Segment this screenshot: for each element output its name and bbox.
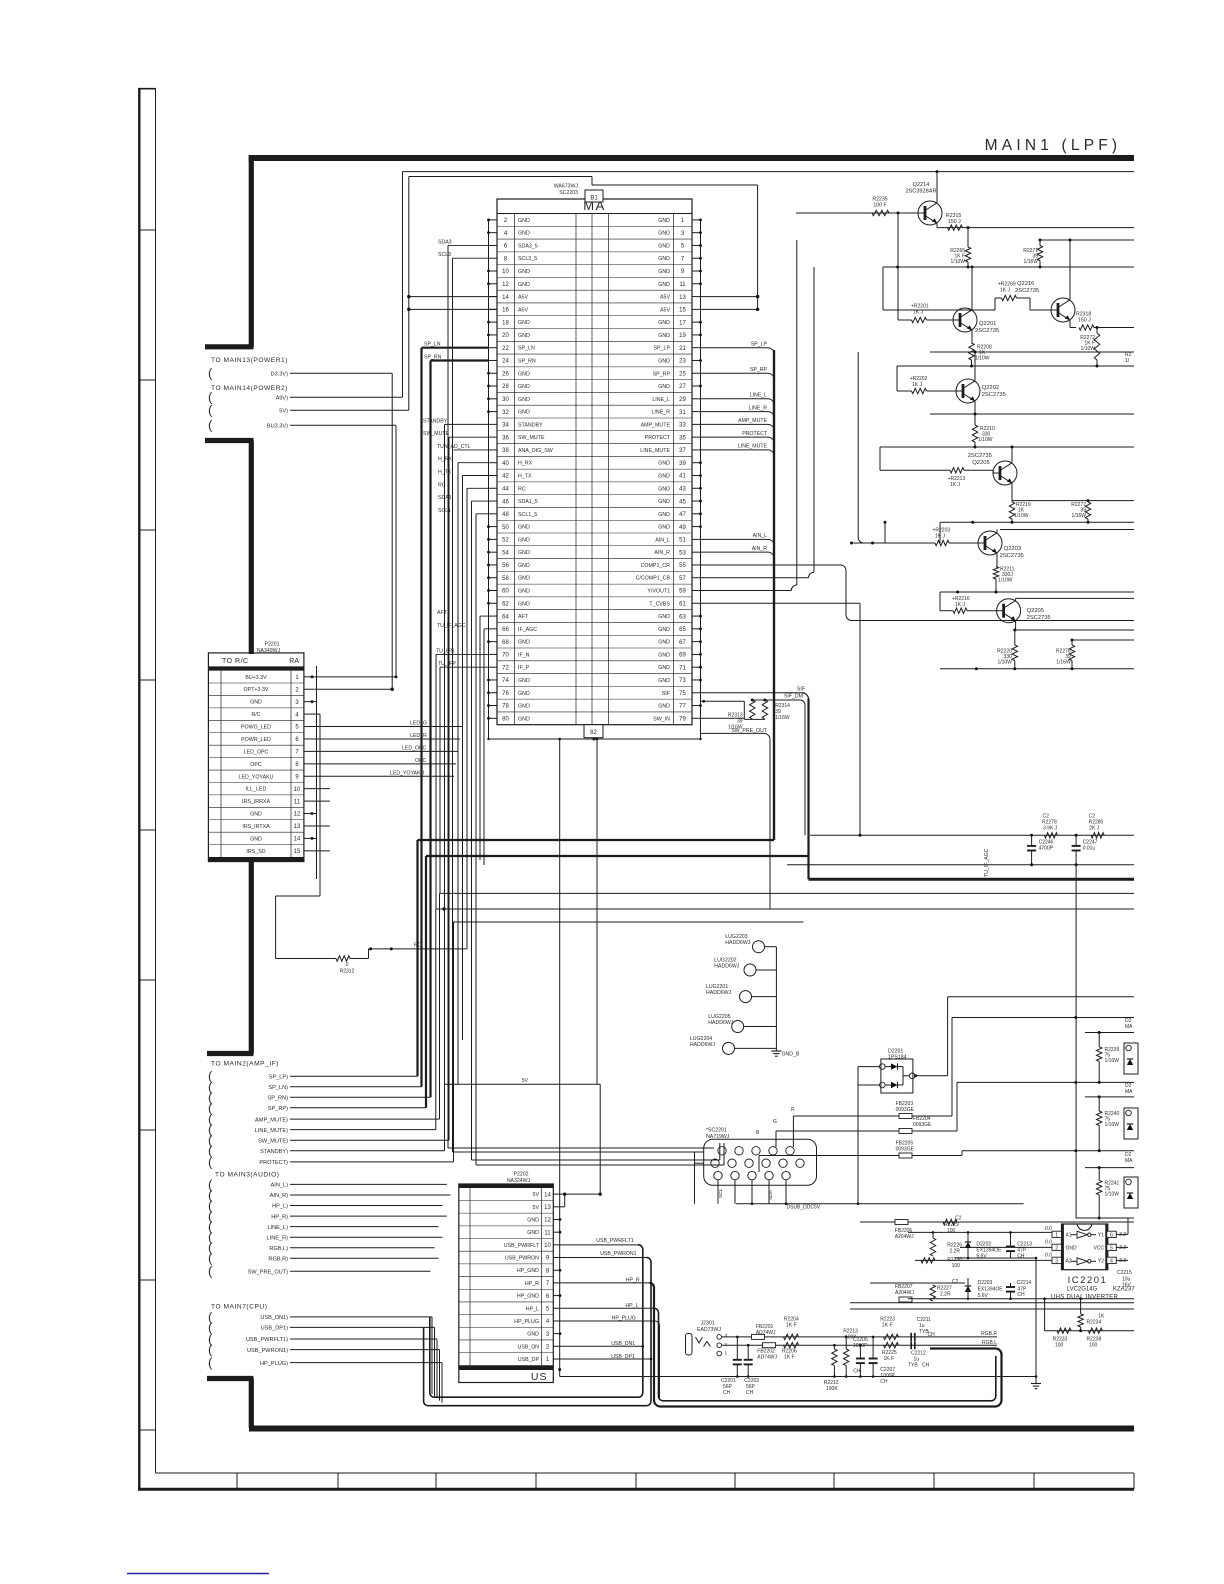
svg-text:LED_R: LED_R [410,733,427,739]
svg-text:AIN_R: AIN_R [752,546,768,552]
svg-text:IRS_IRTXA: IRS_IRTXA [242,824,270,830]
svg-text:UHS DUAL INVERTER: UHS DUAL INVERTER [1051,1294,1118,1300]
svg-text:IRS_SD: IRS_SD [246,849,265,855]
svg-text:GND: GND [518,333,530,339]
svg-text:A204WJ: A204WJ [895,1290,914,1296]
svg-text:1/10W: 1/10W [997,660,1012,666]
svg-text:LINE_R: LINE_R [749,405,767,411]
svg-text:GND: GND [518,269,530,275]
svg-text:TO MAIN13(POWER1): TO MAIN13(POWER1) [211,357,288,364]
svg-text:70: 70 [502,653,509,659]
svg-text:79: 79 [679,717,686,723]
svg-text:A2: A2 [1066,1259,1072,1265]
svg-text:GND: GND [658,269,670,275]
svg-text:69: 69 [679,653,686,659]
svg-text:5.6V: 5.6V [976,1254,987,1260]
svg-text:GND: GND [658,256,670,262]
svg-text:3: 3 [1055,1259,1058,1265]
svg-text:CH: CH [922,1363,930,1369]
svg-text:80: 80 [502,717,509,723]
svg-text:US: US [531,1371,548,1383]
svg-text:16V: 16V [1122,1283,1132,1289]
svg-text:2.2R: 2.2R [949,1249,960,1255]
svg-text:PROTECT: PROTECT [742,431,768,437]
svg-text:12: 12 [544,1218,551,1224]
svg-text:1K J: 1K J [1000,288,1011,294]
svg-text:USB_PWRFLT1: USB_PWRFLT1 [596,1238,633,1244]
svg-text:USB_DN1): USB_DN1) [260,1315,288,1321]
svg-text:IF_N: IF_N [518,652,530,658]
svg-text:24: 24 [502,359,509,365]
svg-text:1/: 1/ [1125,358,1130,364]
svg-text:A5V: A5V [660,307,670,313]
svg-text:SW_MUTE: SW_MUTE [423,431,449,437]
svg-text:1K F: 1K F [784,1355,795,1361]
svg-text:(: ( [208,1355,213,1370]
svg-text:SP_LN: SP_LN [424,342,441,348]
svg-text:SW_MUTE): SW_MUTE) [258,1138,288,1144]
svg-text:RC: RC [518,486,526,492]
svg-text:GND: GND [518,691,530,697]
svg-text:100 F: 100 F [873,203,886,209]
svg-text:100: 100 [1089,1343,1098,1349]
svg-text:C2: C2 [955,1216,962,1222]
svg-text:C2215: C2215 [1117,1270,1132,1276]
svg-text:A5V: A5V [518,295,528,301]
svg-text:(: ( [208,366,213,381]
svg-text:6: 6 [1110,1233,1113,1239]
svg-text:PROTECT: PROTECT [645,435,671,441]
svg-text:USB_PWRON1): USB_PWRON1) [247,1348,288,1354]
svg-text:LINE_L: LINE_L [750,393,767,399]
svg-text:GND: GND [518,525,530,531]
svg-text:GND: GND [658,704,670,710]
svg-text:1/10W: 1/10W [1081,346,1096,352]
svg-text:4700P: 4700P [1039,846,1054,852]
svg-text:68: 68 [502,640,509,646]
svg-text:11: 11 [294,799,301,805]
svg-text:GND: GND [518,576,530,582]
svg-text:67: 67 [679,640,686,646]
svg-text:TUN_AD_CTL: TUN_AD_CTL [437,444,471,450]
svg-text:1/10W: 1/10W [1014,513,1029,519]
svg-text:27: 27 [679,384,686,390]
svg-text:0.0: 0.0 [1045,1226,1052,1232]
svg-text:TYB: TYB [908,1363,918,1369]
svg-text:1/10W: 1/10W [1105,1191,1120,1197]
svg-text:WA673WJ: WA673WJ [554,184,579,190]
svg-text:1K J: 1K J [913,310,924,316]
svg-text:GND: GND [518,384,530,390]
svg-text:55: 55 [679,563,686,569]
svg-text:HADD6WJ: HADD6WJ [714,964,739,970]
svg-text:GND: GND [518,320,530,326]
svg-text:AD74WJ: AD74WJ [757,1355,777,1361]
svg-text:EX1394OE: EX1394OE [978,1287,1004,1293]
svg-text:LINE_MUTE): LINE_MUTE) [255,1128,288,1134]
svg-text:D3.3V): D3.3V) [271,372,289,378]
svg-text:14: 14 [502,295,509,301]
svg-text:GND: GND [518,640,530,646]
svg-text:GND: GND [518,678,530,684]
svg-text:GND: GND [518,231,530,237]
svg-text:TO MAIN14(POWER2): TO MAIN14(POWER2) [211,385,288,392]
svg-text:(: ( [208,403,213,418]
svg-text:EAD73WJ: EAD73WJ [697,1327,721,1333]
svg-text:AIN_L): AIN_L) [271,1183,289,1189]
svg-text:ILL_LED: ILL_LED [246,787,267,793]
svg-text:USB_PWRON: USB_PWRON [505,1256,539,1262]
svg-text:100K: 100K [826,1386,838,1392]
svg-text:25: 25 [679,371,686,377]
svg-text:HP_R): HP_R) [271,1214,288,1220]
svg-text:IRS_IRRXA: IRS_IRRXA [242,799,270,805]
svg-text:SCL1_5: SCL1_5 [518,512,537,518]
svg-text:50: 50 [502,525,509,531]
svg-text:MA: MA [1125,1089,1133,1095]
svg-text:71: 71 [679,665,686,671]
svg-text:3.3: 3.3 [1119,1232,1126,1238]
svg-text:GND: GND [518,282,530,288]
svg-text:*SC2201: *SC2201 [706,1128,727,1134]
svg-text:SP_RN): SP_RN) [267,1096,288,1102]
svg-text:C2214: C2214 [1017,1280,1032,1286]
svg-text:SP_LP: SP_LP [654,346,671,352]
svg-text:A1: A1 [1066,1233,1072,1239]
svg-text:GND: GND [658,473,670,479]
svg-text:USB_PWRON1: USB_PWRON1 [600,1251,636,1257]
svg-text:2SC2735: 2SC2735 [968,453,992,459]
svg-text:46: 46 [502,499,509,505]
svg-text:LINE_MUTE: LINE_MUTE [738,444,768,450]
svg-text:Q2214: Q2214 [913,182,930,188]
svg-text:32: 32 [502,410,509,416]
svg-text:GND: GND [658,384,670,390]
svg-text:SP_RP): SP_RP) [268,1106,288,1112]
svg-text:1K J: 1K J [950,482,961,488]
svg-text:2SC2735: 2SC2735 [982,392,1006,398]
svg-text:SP_LP: SP_LP [751,341,768,347]
svg-text:10: 10 [294,787,301,793]
svg-text:19: 19 [679,333,686,339]
svg-text:AMP_MUTE): AMP_MUTE) [255,1117,288,1123]
svg-text:2SC2735: 2SC2735 [1015,288,1039,294]
svg-text:14: 14 [544,1192,551,1198]
svg-text:DSUB_DDC5V: DSUB_DDC5V [787,1205,821,1211]
svg-text:AD74WJ: AD74WJ [756,1330,776,1336]
svg-text:A204WJ: A204WJ [895,1234,914,1240]
svg-text:GND: GND [518,589,530,595]
svg-text:NA324WJ: NA324WJ [507,1178,531,1184]
svg-text:GND: GND [250,812,262,818]
svg-text:1/10W: 1/10W [998,578,1013,584]
svg-text:P2202: P2202 [513,1172,528,1178]
svg-text:16: 16 [502,308,509,314]
svg-text:USB_PWRFLT: USB_PWRFLT [504,1243,540,1249]
svg-text:35: 35 [679,435,686,441]
svg-text:1/10W: 1/10W [1105,1058,1120,1064]
svg-text:57: 57 [679,576,686,582]
svg-text:GND: GND [518,371,530,377]
svg-text:J2301: J2301 [701,1321,715,1327]
svg-text:C2: C2 [952,1279,959,1285]
svg-text:(: ( [208,418,213,433]
svg-text:77: 77 [679,704,686,710]
svg-text:LINE_MUTE: LINE_MUTE [640,448,670,454]
svg-text:GND: GND [658,627,670,633]
svg-text:1/10W: 1/10W [1105,1122,1120,1128]
svg-text:GND: GND [1066,1246,1078,1252]
svg-text:HADD6WJ: HADD6WJ [708,1020,733,1026]
svg-text:0.0: 0.0 [1045,1253,1052,1259]
svg-text:SC2203: SC2203 [559,190,578,196]
svg-text:HADD6WJ: HADD6WJ [706,990,731,996]
svg-text:GND: GND [518,218,530,224]
svg-text:66: 66 [502,627,509,633]
svg-text:LED_OPC: LED_OPC [402,746,426,752]
svg-text:1K F: 1K F [884,1356,895,1362]
svg-text:1/16W: 1/16W [1072,513,1087,519]
svg-text:GND: GND [518,410,530,416]
svg-text:SP_LP): SP_LP) [269,1074,288,1080]
svg-text:GND: GND [658,499,670,505]
svg-text:44: 44 [502,486,509,492]
svg-text:Q2216: Q2216 [1017,281,1034,287]
svg-text:5V: 5V [533,1192,540,1198]
svg-text:CH: CH [746,1390,754,1396]
svg-text:STANDBY): STANDBY) [260,1149,288,1155]
svg-text:IF_P: IF_P [518,665,530,671]
svg-text:1K J: 1K J [935,534,946,540]
svg-text:53: 53 [679,550,686,556]
svg-text:SCL: SCL [718,1188,724,1198]
svg-text:LED_YOYAKU: LED_YOYAKU [239,774,274,780]
svg-text:150 J: 150 J [948,219,961,225]
svg-text:CH: CH [1017,1292,1025,1298]
svg-text:1: 1 [1055,1233,1058,1239]
svg-text:10: 10 [502,269,509,275]
svg-text:17: 17 [679,320,686,326]
svg-text:P2201: P2201 [264,642,279,648]
svg-text:(: ( [208,1264,213,1279]
svg-text:SP_RP: SP_RP [750,367,768,373]
svg-text:COMP1_CR: COMP1_CR [641,563,671,569]
svg-text:11: 11 [679,282,686,288]
svg-text:62: 62 [502,601,509,607]
svg-text:RGB.R: RGB.R [981,1331,997,1337]
svg-text:C/COMP1_CB: C/COMP1_CB [636,576,671,582]
svg-text:R2312: R2312 [340,969,355,975]
svg-text:29: 29 [679,397,686,403]
svg-text:23: 23 [679,359,686,365]
svg-text:15: 15 [679,308,686,314]
svg-text:15: 15 [294,849,301,855]
svg-text:2SC2735: 2SC2735 [1027,615,1051,621]
svg-text:GND: GND [658,614,670,620]
svg-text:IF_AGC: IF_AGC [518,627,537,633]
svg-text:1K F: 1K F [882,1323,893,1329]
svg-text:OPC: OPC [250,762,262,768]
svg-text:R/C: R/C [251,712,260,718]
svg-text:SW_IN: SW_IN [653,716,670,722]
svg-text:BU+3.3V: BU+3.3V [245,675,267,681]
svg-text:0.01u: 0.01u [1083,846,1096,852]
svg-text:5V: 5V [522,1078,529,1084]
svg-text:SDA1_5: SDA1_5 [518,499,538,505]
svg-text:HP_L): HP_L) [272,1204,288,1210]
svg-text:RGB.L: RGB.L [982,1340,997,1346]
svg-text:82: 82 [590,730,597,736]
svg-text:GND: GND [527,1332,539,1338]
svg-text:T_CVBS: T_CVBS [649,601,670,607]
svg-text:GND: GND [658,231,670,237]
svg-text:TU_IF_AGC: TU_IF_AGC [437,623,466,629]
svg-text:GND: GND [658,525,670,531]
svg-text:52: 52 [502,538,509,544]
svg-text:ANA_DIG_SW: ANA_DIG_SW [518,448,553,454]
svg-text:R: R [791,1107,795,1113]
svg-text:42: 42 [502,474,509,480]
svg-text:63: 63 [679,614,686,620]
svg-text:GND: GND [518,563,530,569]
svg-text:60: 60 [502,589,509,595]
svg-text:GND: GND [658,678,670,684]
svg-text:LVC2G14G: LVC2G14G [1067,1287,1098,1293]
svg-text:LINE_L: LINE_L [652,397,670,403]
svg-text:10: 10 [544,1243,551,1249]
svg-text:GND: GND [518,537,530,543]
svg-text:64: 64 [502,614,509,620]
svg-text:GND: GND [658,333,670,339]
svg-text:GND: GND [658,652,670,658]
svg-text:100: 100 [952,1263,961,1269]
svg-text:SIF: SIF [797,687,805,693]
svg-text:2SC3928AR: 2SC3928AR [905,189,936,195]
svg-text:Y1: Y1 [1098,1233,1104,1239]
svg-text:NA719WJ: NA719WJ [706,1134,730,1140]
svg-text:5.6V: 5.6V [978,1293,989,1299]
svg-text:HP_GND: HP_GND [517,1268,539,1274]
svg-text:1K F: 1K F [786,1323,797,1329]
svg-text:SDA3_5: SDA3_5 [518,243,538,249]
svg-text:HADD6WJ: HADD6WJ [690,1042,715,1048]
svg-text:STANDBY: STANDBY [423,418,448,424]
svg-text:A9V): A9V) [276,396,289,402]
svg-text:78: 78 [502,704,509,710]
svg-text:LINE_L): LINE_L) [267,1225,288,1231]
svg-text:1: 1 [725,1351,728,1356]
svg-text:48: 48 [502,512,509,518]
svg-text:HADD6WJ: HADD6WJ [725,940,750,946]
svg-text:40: 40 [502,461,509,467]
svg-text:59: 59 [679,589,686,595]
svg-text:RGB.L): RGB.L) [269,1246,288,1252]
svg-text:150 J: 150 J [1078,318,1091,324]
svg-text:33: 33 [679,423,686,429]
svg-text:72: 72 [502,665,509,671]
svg-text:HP_R: HP_R [525,1281,539,1287]
svg-text:SP_RP: SP_RP [653,371,671,377]
svg-text:22: 22 [502,346,509,352]
svg-text:76: 76 [502,691,509,697]
svg-text:D2203: D2203 [978,1280,993,1286]
svg-text:BU3.3V): BU3.3V) [267,424,288,430]
svg-text:SCL3: SCL3 [438,252,451,258]
svg-text:1/16W: 1/16W [1056,660,1071,666]
svg-text:OPT+3.3V: OPT+3.3V [244,687,269,693]
svg-text:CH: CH [928,1332,936,1338]
svg-text:USB_DN: USB_DN [518,1344,540,1350]
svg-text:36: 36 [502,435,509,441]
svg-text:13: 13 [544,1205,551,1211]
svg-text:2K J: 2K J [1089,826,1100,832]
svg-text:RC: RC [414,943,422,949]
svg-text:TO MAIN7(CPU): TO MAIN7(CPU) [211,1304,267,1311]
svg-text:SP_LN): SP_LN) [268,1085,288,1091]
svg-text:100: 100 [947,1228,956,1234]
svg-text:CH: CH [880,1379,888,1385]
svg-text:GND_B: GND_B [782,1052,800,1058]
svg-text:73: 73 [679,678,686,684]
svg-text:3.9K J: 3.9K J [1043,826,1058,832]
svg-text:PROTECT): PROTECT) [259,1160,288,1166]
svg-text:GND: GND [250,700,262,706]
svg-text:61: 61 [679,601,686,607]
svg-text:CH: CH [1017,1254,1025,1260]
svg-text:GND: GND [250,836,262,842]
svg-text:GND: GND [658,461,670,467]
svg-text:SP_LN: SP_LN [518,346,535,352]
svg-text:1/10W: 1/10W [975,356,990,362]
svg-text:GND: GND [518,397,530,403]
svg-text:SW_MUTE: SW_MUTE [518,435,545,441]
svg-text:GND: GND [658,512,670,518]
svg-text:TO MAIN2(AMP_IF): TO MAIN2(AMP_IF) [211,1061,279,1068]
svg-text:1/10W: 1/10W [978,437,993,443]
svg-text:RGB.R): RGB.R) [268,1256,288,1262]
svg-text:HP_GND: HP_GND [517,1294,539,1300]
svg-text:49: 49 [679,525,686,531]
svg-text:AFT: AFT [437,610,448,616]
svg-text:47: 47 [679,512,686,518]
svg-text:HP_PLUG): HP_PLUG) [260,1361,288,1367]
svg-text:Q2202: Q2202 [982,385,999,391]
svg-text:SW_PRE_OUT: SW_PRE_OUT [731,728,768,734]
svg-text:Q2205: Q2205 [1027,608,1044,614]
svg-text:G: G [773,1119,777,1125]
svg-text:12: 12 [502,282,509,288]
svg-text:13: 13 [679,295,686,301]
svg-text:5V: 5V [533,1205,540,1211]
svg-text:GND: GND [518,550,530,556]
svg-text:RA: RA [289,658,299,665]
svg-text:LINE_R): LINE_R) [267,1235,289,1241]
svg-text:1/16W: 1/16W [1024,259,1039,265]
svg-text:0093GE: 0093GE [896,1147,915,1153]
svg-text:IC2201: IC2201 [1068,1275,1108,1286]
svg-text:AIN_L: AIN_L [753,533,768,539]
svg-text:GND: GND [658,640,670,646]
svg-text:STANDBY: STANDBY [518,422,543,428]
svg-text:SDA3: SDA3 [438,239,452,245]
svg-text:45: 45 [679,499,686,505]
svg-text:GND: GND [658,320,670,326]
svg-text:3.3: 3.3 [1119,1245,1126,1251]
svg-text:38: 38 [502,448,509,454]
svg-text:0093GE: 0093GE [913,1122,932,1128]
svg-text:Y2: Y2 [1098,1259,1104,1265]
svg-text:CH: CH [723,1390,731,1396]
